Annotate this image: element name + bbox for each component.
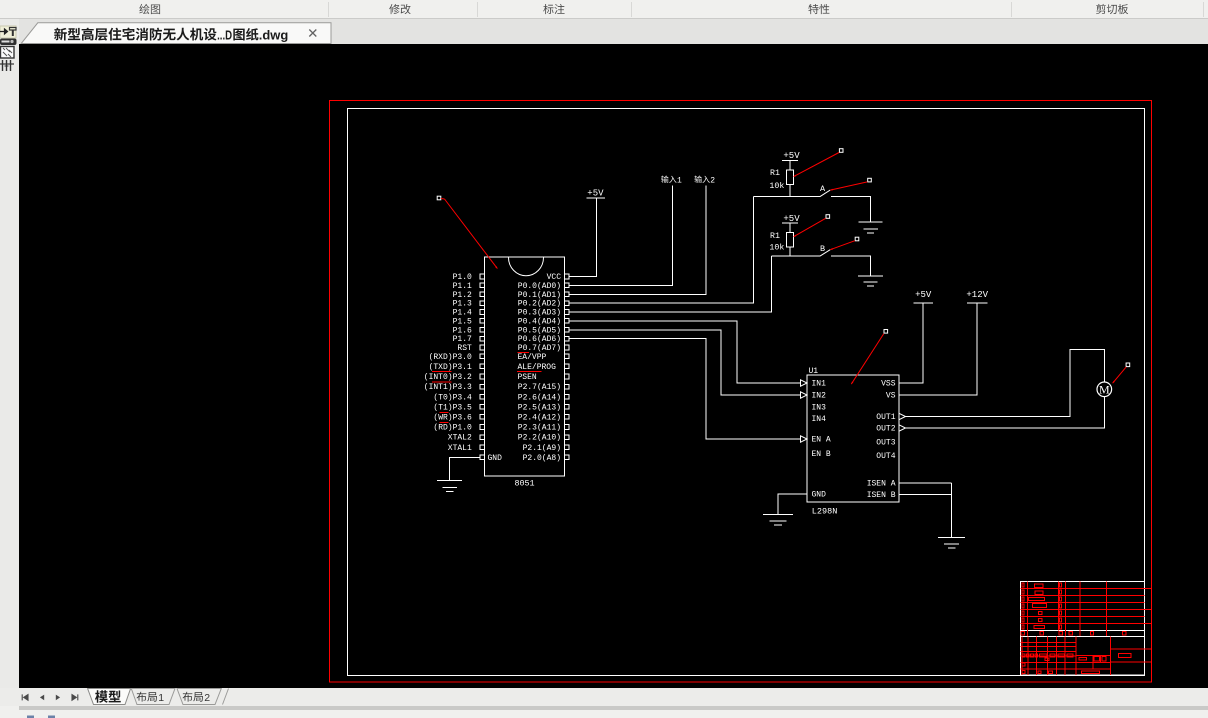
svg-text:P1.7: P1.7 xyxy=(453,335,472,344)
node label input 2 xyxy=(694,176,715,186)
8051 left pin labels xyxy=(424,273,472,453)
8051 right pin squares xyxy=(565,274,570,459)
title block main grid xyxy=(1021,637,1145,676)
leader callout to motor xyxy=(1113,363,1130,383)
ground at 8051 GND xyxy=(437,481,462,492)
wire VS to +12V xyxy=(899,303,977,395)
svg-text:+5V: +5V xyxy=(915,290,932,300)
8051 right pin labels P0/VCC xyxy=(518,273,561,353)
svg-text:P2.5(A13): P2.5(A13) xyxy=(518,403,561,412)
title block middle band xyxy=(1021,630,1145,636)
svg-text:P0.6(AD6): P0.6(AD6) xyxy=(518,335,561,344)
wire VSS to +5V xyxy=(899,303,923,383)
svg-text:EN A: EN A xyxy=(812,436,831,445)
svg-text:IN4: IN4 xyxy=(812,415,827,424)
svg-text:(INT0)P3.2: (INT0)P3.2 xyxy=(424,373,472,382)
switch A lever xyxy=(820,190,830,197)
node label input 1 xyxy=(661,176,682,186)
svg-text:P0.0(AD0): P0.0(AD0) xyxy=(518,282,561,291)
leader callout to L298N xyxy=(851,330,887,385)
wire +5V to R1 xyxy=(789,161,791,170)
L298N output arrows xyxy=(899,413,906,431)
svg-text:R1: R1 xyxy=(770,232,780,241)
svg-text:IN1: IN1 xyxy=(812,380,827,389)
svg-text:VSS: VSS xyxy=(881,380,896,389)
ground at switch A xyxy=(859,222,883,233)
power +12V (VS) xyxy=(966,290,988,303)
svg-text:OUT1: OUT1 xyxy=(876,413,895,422)
wire rail A left segment xyxy=(754,196,820,198)
svg-text:OUT4: OUT4 xyxy=(876,452,895,461)
8051 right pin labels EA ALE PSEN P2 xyxy=(518,353,562,463)
svg-text:RST: RST xyxy=(457,344,472,353)
label B xyxy=(820,244,825,254)
label R1 xyxy=(770,169,780,178)
leader callout to R1 bottom xyxy=(794,215,830,237)
resistor R1 (top) xyxy=(786,170,793,184)
svg-text:VCC: VCC xyxy=(547,273,562,282)
svg-text:OUT3: OUT3 xyxy=(876,439,895,448)
ground at switch B xyxy=(858,276,883,286)
label 10k xyxy=(769,181,784,191)
svg-text:+12V: +12V xyxy=(966,290,988,300)
wire P0.3 riser to switch B rail xyxy=(569,256,771,312)
svg-text:P2.1(A9): P2.1(A9) xyxy=(523,444,561,453)
power +5V (R1 bottom) xyxy=(782,214,800,224)
svg-text:P2.2(A10): P2.2(A10) xyxy=(518,434,561,443)
wire rail B left segment xyxy=(771,255,820,257)
motor M xyxy=(1097,382,1112,397)
svg-text:EN B: EN B xyxy=(812,450,831,459)
svg-text:ISEN B: ISEN B xyxy=(867,491,896,500)
svg-text:XTAL2: XTAL2 xyxy=(448,434,472,443)
wire R1 to rail A xyxy=(789,184,791,196)
wire P0.5 to IN2 xyxy=(569,330,800,395)
svg-text:(RXD)P3.0: (RXD)P3.0 xyxy=(429,353,472,362)
wire R1 to rail B xyxy=(789,247,791,256)
svg-text:+5V: +5V xyxy=(587,188,604,198)
svg-text:(RD)P1.0: (RD)P1.0 xyxy=(433,424,472,433)
L298N right pin labels xyxy=(867,380,896,501)
svg-text:P0.2(AD2): P0.2(AD2) xyxy=(518,300,561,309)
svg-text:P0.1(AD1): P0.1(AD1) xyxy=(518,291,561,300)
svg-text:VS: VS xyxy=(886,392,896,401)
svg-text:L298N: L298N xyxy=(812,507,838,517)
svg-text:PSEN: PSEN xyxy=(518,373,537,382)
microcontroller U? 8051 body xyxy=(485,257,565,476)
svg-text:P1.6: P1.6 xyxy=(453,326,472,335)
8051 part label xyxy=(514,479,534,489)
wire P0.0 to input1 xyxy=(569,186,672,286)
wire P0.4 to IN1 xyxy=(569,321,800,383)
8051 left pin squares xyxy=(480,274,485,459)
svg-text:(INT1)P3.3: (INT1)P3.3 xyxy=(424,383,472,392)
wire VCC to +5V xyxy=(569,198,596,277)
power +5V (VSS) xyxy=(914,290,934,303)
ground at ISEN xyxy=(938,537,965,548)
svg-text:A: A xyxy=(820,184,826,194)
red overlines on active-low pin names xyxy=(432,353,542,423)
label 10k (bottom) xyxy=(769,243,784,253)
leader callout to 8051 xyxy=(437,196,497,268)
svg-text:R1: R1 xyxy=(770,169,780,178)
L298N input arrows xyxy=(801,380,808,442)
svg-text:P2.0(A8): P2.0(A8) xyxy=(523,454,561,463)
power +5V (R1 top) xyxy=(782,151,800,161)
svg-text:P1.2: P1.2 xyxy=(453,291,472,300)
svg-text:P1.5: P1.5 xyxy=(453,318,472,327)
power +5V (VCC) xyxy=(587,188,606,198)
leader callout to switch A xyxy=(830,178,871,190)
switch B lever xyxy=(820,250,830,257)
drawing frame inner white border xyxy=(348,109,1145,676)
svg-text:10k: 10k xyxy=(769,181,784,191)
svg-text:OUT2: OUT2 xyxy=(876,425,895,434)
leader callout to switch B xyxy=(830,237,859,250)
svg-text:B: B xyxy=(820,244,825,254)
wire P0.2 riser to switch A rail xyxy=(569,197,754,303)
wire rail B right segment xyxy=(831,256,870,276)
ground at L298N GND xyxy=(763,515,793,526)
svg-text:P2.7(A15): P2.7(A15) xyxy=(518,383,561,392)
leader callout to R1 top xyxy=(794,149,843,177)
label A xyxy=(820,184,826,194)
svg-text:P0.4(AD4): P0.4(AD4) xyxy=(518,318,561,327)
title block red extensions xyxy=(1145,589,1152,663)
svg-text:1: 1 xyxy=(677,176,682,185)
L298N left pin labels xyxy=(812,380,831,500)
svg-text:(TXD)P3.1: (TXD)P3.1 xyxy=(429,363,472,372)
driver U1 L298N body xyxy=(807,375,899,502)
wire 8051 GND to ground xyxy=(450,457,480,480)
svg-text:ISEN A: ISEN A xyxy=(867,480,896,489)
svg-text:GND: GND xyxy=(812,491,827,500)
8051 GND pin label xyxy=(488,454,503,463)
wire rail A right segment xyxy=(831,197,870,222)
wire OUT2 to motor xyxy=(906,397,1105,428)
wire ISEN A/B to ground xyxy=(899,483,952,537)
svg-text:P1.0: P1.0 xyxy=(453,273,472,282)
svg-text:IN3: IN3 xyxy=(812,404,827,413)
label U1 xyxy=(809,367,819,376)
svg-text:+5V: +5V xyxy=(783,214,800,224)
svg-text:P1.1: P1.1 xyxy=(453,282,472,291)
svg-text:2: 2 xyxy=(710,176,715,185)
resistor R1 (bottom) xyxy=(786,233,793,247)
drawing frame outer red border xyxy=(330,101,1152,683)
svg-text:EA/VPP: EA/VPP xyxy=(518,353,547,362)
svg-text:P0.7(AD7): P0.7(AD7) xyxy=(518,344,561,353)
svg-text:M: M xyxy=(1099,383,1110,397)
svg-text:(WR)P3.6: (WR)P3.6 xyxy=(433,414,472,423)
svg-text:P2.3(A11): P2.3(A11) xyxy=(518,424,561,433)
svg-text:XTAL1: XTAL1 xyxy=(448,444,472,453)
svg-text:IN2: IN2 xyxy=(812,392,827,401)
svg-text:P2.6(A14): P2.6(A14) xyxy=(518,393,561,402)
wire L298N GND to ground xyxy=(778,494,807,515)
svg-text:P2.4(A12): P2.4(A12) xyxy=(518,414,561,423)
label L298N xyxy=(812,507,838,517)
svg-text:P0.3(AD3): P0.3(AD3) xyxy=(518,309,561,318)
svg-text:U1: U1 xyxy=(809,367,819,376)
wire P0.6 to EN A xyxy=(569,339,800,439)
svg-text:ALE/PROG: ALE/PROG xyxy=(518,363,557,372)
title block revision table xyxy=(1021,582,1145,631)
svg-text:+5V: +5V xyxy=(783,151,800,161)
svg-text:(T0)P3.4: (T0)P3.4 xyxy=(433,393,472,402)
wire OUT1 to motor xyxy=(906,350,1105,417)
svg-text:(T1)P3.5: (T1)P3.5 xyxy=(433,403,472,412)
label R1 (bottom) xyxy=(770,232,780,241)
wire +5V to R1 bottom xyxy=(789,223,791,233)
svg-text:GND: GND xyxy=(488,454,503,463)
svg-text:P1.3: P1.3 xyxy=(453,300,472,309)
svg-text:P0.5(AD5): P0.5(AD5) xyxy=(518,326,561,335)
svg-text:8051: 8051 xyxy=(514,479,534,489)
wire P0.1 to input2 xyxy=(569,186,706,295)
svg-text:10k: 10k xyxy=(769,243,784,253)
svg-text:P1.4: P1.4 xyxy=(453,309,472,318)
